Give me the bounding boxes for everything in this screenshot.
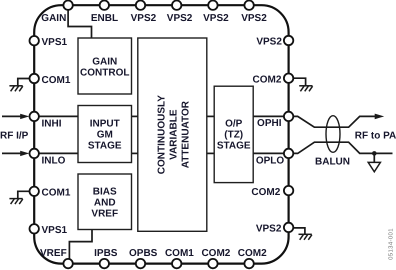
svg-text:VPS1: VPS1 <box>42 225 68 236</box>
svg-text:VREF: VREF <box>91 208 118 219</box>
svg-text:COM2: COM2 <box>201 248 230 259</box>
svg-text:INHI: INHI <box>42 118 62 129</box>
svg-text:COM2: COM2 <box>251 187 280 198</box>
svg-text:OPBS: OPBS <box>129 248 158 259</box>
svg-text:COM1: COM1 <box>165 248 194 259</box>
svg-text:INLO: INLO <box>42 156 66 167</box>
svg-text:VPS2: VPS2 <box>131 13 157 24</box>
svg-text:STAGE: STAGE <box>217 141 251 152</box>
svg-text:IPBS: IPBS <box>94 248 118 259</box>
svg-text:VREF: VREF <box>40 248 67 259</box>
svg-text:VPS2: VPS2 <box>167 13 193 24</box>
svg-text:COM1: COM1 <box>42 75 71 86</box>
svg-text:O/P: O/P <box>225 119 243 130</box>
svg-text:CONTINUOUSLY: CONTINUOUSLY <box>157 95 168 174</box>
svg-text:ATTENUATOR: ATTENUATOR <box>181 100 192 168</box>
svg-text:VPS2: VPS2 <box>256 37 282 48</box>
svg-text:BIAS: BIAS <box>93 186 117 197</box>
svg-text:OPHI: OPHI <box>257 118 282 129</box>
svg-text:AND: AND <box>94 197 116 208</box>
svg-text:05134-001: 05134-001 <box>388 228 395 260</box>
svg-text:BALUN: BALUN <box>315 157 350 168</box>
svg-text:INPUT: INPUT <box>90 119 120 130</box>
svg-text:OPLO: OPLO <box>256 156 285 167</box>
svg-text:RF to PA: RF to PA <box>355 131 396 142</box>
svg-text:RF I/P: RF I/P <box>0 130 29 141</box>
svg-text:COM2: COM2 <box>252 74 281 85</box>
svg-text:VPS1: VPS1 <box>42 37 68 48</box>
svg-text:GM: GM <box>97 130 113 141</box>
svg-text:COM2: COM2 <box>238 248 267 259</box>
svg-text:(TZ): (TZ) <box>224 130 243 141</box>
svg-text:GAIN: GAIN <box>92 56 117 67</box>
svg-text:GAIN: GAIN <box>41 13 66 24</box>
svg-text:STAGE: STAGE <box>88 141 122 152</box>
svg-text:VPS2: VPS2 <box>256 224 282 235</box>
svg-text:VPS2: VPS2 <box>241 13 267 24</box>
svg-text:COM1: COM1 <box>42 188 71 199</box>
svg-text:VPS2: VPS2 <box>203 13 229 24</box>
svg-text:VARIABLE: VARIABLE <box>169 109 180 160</box>
svg-text:ENBL: ENBL <box>91 13 118 24</box>
svg-text:CONTROL: CONTROL <box>80 67 129 78</box>
